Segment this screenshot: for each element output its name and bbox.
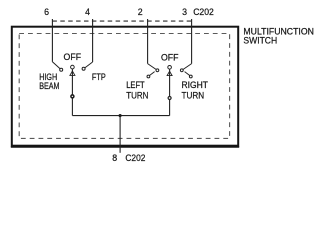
pin 3 label [182, 7, 187, 17]
svg-text:FTP: FTP [92, 72, 106, 82]
right turn fixed contact circle [180, 69, 183, 72]
left turn contact blade [150, 72, 155, 76]
OFF label (turn signal switch) [161, 53, 179, 63]
turn signal switch pole junction circle [168, 97, 171, 100]
wire pin 4 slant to FTP contact [85, 62, 93, 68]
svg-text:3: 3 [182, 7, 187, 17]
connector C202 label (bottom) [125, 153, 145, 163]
LEFT TURN label [126, 80, 148, 100]
wire pin 4 vertical [92, 19, 94, 62]
wire pin 6 vertical [51, 19, 53, 62]
wire pin 6 slant to high beam contact [52, 62, 60, 69]
right turn lower contact circle [189, 75, 192, 78]
OFF label (headlamp switch) [64, 52, 82, 62]
svg-text:8: 8 [112, 153, 117, 163]
svg-text:6: 6 [44, 7, 49, 17]
wire pin 2 slant to left turn contact [148, 64, 157, 70]
left turn lower contact circle [147, 75, 150, 78]
OFF contact circle (headlamp switch) [71, 65, 75, 69]
pin 4 label [85, 7, 90, 17]
svg-text:C202: C202 [125, 153, 145, 163]
wire pin 3 slant to right turn contact [183, 64, 192, 70]
connector C202 dashed bus line (top) [52, 20, 191, 22]
svg-text:TURN: TURN [126, 90, 148, 100]
pin 6 label [44, 7, 49, 17]
headlamp switch pole junction circle [71, 95, 74, 98]
svg-text:BEAM: BEAM [39, 81, 59, 91]
bus junction dot [119, 114, 122, 117]
svg-text:OFF: OFF [64, 52, 82, 62]
right turn contact blade [185, 72, 190, 76]
high beam contact circle [60, 68, 63, 71]
wire pin 8 vertical [119, 116, 121, 153]
wire pin 2 vertical [147, 19, 149, 64]
svg-text:RIGHT: RIGHT [182, 80, 209, 90]
left turn fixed contact circle [156, 69, 159, 72]
FTP label [92, 72, 106, 82]
svg-text:2: 2 [138, 7, 143, 17]
svg-text:TURN: TURN [182, 91, 205, 101]
svg-text:OFF: OFF [161, 53, 179, 63]
pin 2 label [138, 7, 143, 17]
svg-text:SWITCH: SWITCH [243, 35, 277, 45]
headlamp switch pole arrow [70, 71, 75, 75]
multifunction switch outer box [11, 27, 239, 147]
connector C202 label (top) [193, 7, 214, 17]
multifunction switch inner dashed boundary [19, 34, 229, 139]
pin 8 label [112, 153, 117, 163]
svg-text:C202: C202 [193, 7, 214, 17]
svg-text:LEFT: LEFT [126, 80, 145, 90]
common bus wire [72, 115, 169, 117]
RIGHT TURN label [182, 80, 209, 100]
wire pin 3 vertical [191, 19, 193, 64]
headlamp switch pole wire [71, 69, 73, 116]
FTP contact circle [82, 67, 85, 70]
svg-text:4: 4 [85, 7, 90, 17]
turn signal switch pole wire [169, 69, 171, 116]
turn signal switch pole arrow [167, 71, 172, 75]
MULTIFUNCTION SWITCH label [243, 27, 314, 46]
OFF contact circle (turn signal switch) [168, 66, 172, 70]
HIGH BEAM label [39, 72, 59, 91]
